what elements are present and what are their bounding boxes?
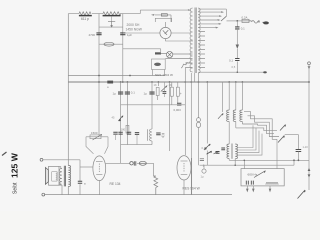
box tone filter: [241, 169, 284, 186]
heater line x185.3: [184, 68, 186, 156]
svg-text:4700: 4700: [89, 33, 96, 37]
tube V3: [177, 156, 191, 180]
wire rail B y10: [140, 9, 188, 11]
capacitor 0,003 on H4: [177, 103, 181, 105]
box legs to H2: [153, 70, 165, 76]
cap to line: [297, 152, 299, 161]
wire bus H3 y82: [68, 81, 309, 83]
wire to resistor: [146, 163, 153, 176]
capacitor x223: [221, 148, 225, 150]
box pot arrow: [254, 171, 266, 178]
inline fuse on bus: [107, 81, 113, 84]
resistor R2 bar: [103, 15, 121, 17]
right edge vertical with arrows: [308, 160, 311, 190]
socket circle below rail: [203, 165, 205, 169]
pot arrow pair small: [207, 151, 212, 154]
coil2 bottom wire: [235, 122, 237, 128]
grid RC bridge: [86, 135, 108, 154]
svg-text:+: +: [180, 92, 182, 96]
heater wire y48.8: [123, 48, 161, 50]
caps row cap x129: [127, 132, 131, 134]
wire bottom bus: [45, 194, 232, 196]
transformer primary winding: [190, 8, 193, 72]
capacitor x298.4: [296, 150, 302, 152]
bracket around tube top: [155, 18, 171, 22]
arrow left on rail A end: [151, 14, 155, 16]
transformer taps left: [165, 54, 192, 68]
IF transformer B core: [231, 144, 232, 159]
capacitor 4700 on V2: [96, 33, 101, 35]
voltage selector arm: [221, 16, 226, 21]
tick right of cap: [162, 133, 165, 135]
svg-text:1K: 1K: [154, 83, 157, 87]
cap x115.5 lead: [115, 134, 117, 140]
caps row cap x137: [135, 133, 139, 135]
cluster cap bars x217: [216, 152, 220, 154]
svg-text:Seibt: Seibt: [13, 182, 19, 194]
wire rail y160.3: [229, 159, 309, 161]
wire bar to lamp: [161, 49, 167, 54]
svg-text:45: 45: [112, 116, 115, 120]
svg-text:1450 NGW: 1450 NGW: [126, 28, 143, 32]
grid cap component: [130, 161, 139, 165]
resistor rect x127.4 y125: [126, 125, 129, 133]
wire left vertical V1: [67, 14, 69, 195]
wire V5 x152: [151, 82, 153, 145]
svg-text:NES 1204 W: NES 1204 W: [155, 73, 173, 77]
transformer taps right upper: [199, 9, 227, 28]
svg-text:a: a: [107, 85, 109, 89]
svg-text:0,2A: 0,2A: [242, 15, 248, 19]
svg-text:a: a: [84, 181, 86, 185]
dial lamp: [166, 51, 172, 57]
resistor R1 bar: [79, 15, 92, 17]
caps row cap x115.5: [113, 132, 117, 134]
primary connects: [61, 169, 62, 195]
trimmer tap from R2: [108, 16, 115, 28]
svg-text:W: W: [162, 135, 165, 139]
wire y44.2: [99, 43, 123, 45]
svg-text:0,1: 0,1: [241, 27, 245, 31]
junction dot mains: [236, 20, 238, 22]
svg-text:0,1: 0,1: [202, 146, 206, 150]
right vertical x80: [79, 160, 81, 195]
capacitor 0,1 on x127.4: [125, 92, 130, 94]
grid wire to tube: [80, 166, 93, 168]
wire cap down to y72 line: [236, 49, 238, 72]
wave switch arm left: [218, 82, 224, 119]
caps row cap on x120.6: [118, 132, 122, 134]
transformer secondary winding: [198, 8, 200, 73]
IF transformer B secondary: [235, 144, 237, 159]
antenna vertical: [308, 65, 310, 82]
pot line x207.3: [206, 82, 208, 165]
svg-text:1K: 1K: [169, 83, 172, 87]
heater line x194.7: [194, 73, 196, 82]
pilot squiggle: [249, 21, 260, 24]
svg-text:611 p: 611 p: [81, 17, 89, 21]
earth terminal y72: [263, 71, 267, 73]
svg-text:125 W: 125 W: [10, 152, 20, 178]
RF coil 1: [227, 110, 230, 122]
corner 294: [293, 160, 295, 165]
heater line x191.3: [190, 73, 192, 195]
speaker terminal top: [40, 158, 43, 161]
coil1 bottom wire: [228, 122, 230, 145]
pot wiper x207: [204, 144, 211, 150]
IF transformer B primary: [227, 144, 229, 158]
wire grid line y27.1: [99, 26, 123, 28]
mains plug: [258, 21, 269, 24]
RF coil 3: [240, 110, 243, 122]
output transformer secondary loops: [68, 166, 70, 187]
vertical x191.7 tail: [191, 158, 193, 195]
wire V3 x122: [122, 14, 124, 82]
resistor vertical x171.8: [170, 82, 173, 105]
resistor R2: [103, 12, 121, 15]
plate line tube V2: [106, 162, 130, 164]
wire segment y14.9 with bar: [155, 15, 171, 22]
RF coil feed wires: [229, 82, 242, 110]
cap x137 lead: [136, 134, 138, 144]
resistor R1: [79, 12, 91, 15]
wire V6 x158.4: [157, 82, 159, 86]
fuse box: [152, 59, 166, 70]
speaker top wire: [43, 159, 80, 161]
wire V4 x127.4: [126, 82, 128, 145]
capacitor x164.4: [163, 92, 167, 94]
speaker frame: [49, 166, 60, 185]
speaker magnet: [45, 168, 48, 185]
speaker inner: [52, 172, 58, 181]
svg-text:180: 180: [121, 128, 126, 132]
capacitor second 0,1: [235, 59, 239, 61]
output transformer core: [64, 166, 65, 187]
stamp mark bottom left: [2, 152, 7, 156]
svg-text:1-10: 1-10: [303, 145, 309, 149]
wire V2 x99: [98, 14, 100, 135]
circle component on x198.5: [197, 118, 201, 122]
wire H2 y75: [68, 75, 164, 77]
fuse oval: [104, 42, 114, 46]
resistor vertical x157.6: [156, 88, 159, 101]
component x202 with label: [200, 159, 205, 168]
junction dots right rails: [234, 159, 299, 166]
mains line after switch: [227, 20, 243, 22]
output transformer primary: [59, 169, 62, 186]
pot arrow over resistor: [161, 86, 167, 92]
band switch wipers: [278, 125, 286, 143]
phono switch arrow: [298, 190, 306, 199]
resistor diagonal near transformer: [181, 62, 190, 69]
capacitor 1u on x120.6: [118, 92, 123, 94]
capacitor 1u on x152: [149, 92, 154, 94]
tap arrows: [216, 11, 225, 28]
wire H4 y104.8: [121, 104, 186, 106]
svg-text:2000 SH: 2000 SH: [127, 23, 140, 27]
svg-text:1µ: 1µ: [144, 92, 148, 96]
wire rail to box: [243, 160, 245, 168]
pot arrow over grid resistor: [93, 134, 102, 140]
svg-text:1µ: 1µ: [113, 92, 117, 96]
speaker wires to primary: [59, 166, 61, 185]
svg-text:1µF: 1µF: [127, 33, 132, 37]
wire top rail A: [68, 10, 140, 14]
RF coil 2: [233, 110, 236, 122]
switch common wire: [285, 135, 299, 150]
box ground arrows: [246, 186, 271, 192]
oval component on x198.5: [196, 122, 200, 127]
fuse F2: [242, 19, 249, 22]
svg-text:0,1: 0,1: [131, 90, 135, 94]
bar component on segment: [161, 14, 167, 16]
svg-text:1µ: 1µ: [201, 175, 204, 179]
wire rail y165.2: [200, 164, 295, 166]
IF B bottom leads: [229, 159, 235, 165]
AF choke coil x152: [147, 129, 152, 141]
svg-text:0,5: 0,5: [232, 65, 236, 69]
oval component x142.5: [139, 161, 146, 165]
voltage selector corner: [225, 9, 227, 16]
arrow right on rail B: [188, 9, 192, 11]
junction dots bus: [98, 75, 310, 83]
capacitor 0,1 to ground: [236, 21, 238, 27]
heater bar component: [155, 52, 161, 54]
transformer taps right lower: [199, 32, 264, 73]
antenna symbol: [308, 62, 311, 69]
resistor zigzag x155.8: [154, 176, 158, 195]
box caps: [246, 181, 253, 185]
capacitor on V3: [120, 33, 125, 35]
tube V3 cathode lead: [183, 180, 185, 195]
svg-text:0,1: 0,1: [229, 59, 233, 63]
wire V8 x169.5: [169, 82, 171, 151]
IF B taps right: [237, 125, 262, 155]
box coil: [266, 183, 278, 185]
heater line x198.5: [198, 73, 200, 165]
coil3 bottom wire: [241, 122, 243, 125]
svg-text:RE 134: RE 134: [110, 182, 121, 186]
caps row cap x158.4: [156, 133, 160, 135]
svg-text:1500: 1500: [91, 131, 98, 135]
tube V2: [93, 156, 106, 195]
wire mesh to box: [276, 139, 278, 168]
ground arrow: [236, 45, 239, 49]
antenna vertical lower: [308, 82, 310, 160]
fuse oval inside box: [154, 63, 161, 66]
cluster pot arrows: [207, 151, 219, 154]
band wiring fan: [236, 112, 279, 140]
svg-text:0,003: 0,003: [174, 108, 182, 112]
wire H y144.6: [121, 144, 152, 146]
tone cap on x80: [78, 181, 82, 183]
resistor vertical x177.8: [176, 82, 179, 103]
speaker terminal bottom: [42, 193, 45, 196]
transformer core: [195, 8, 196, 74]
wire V3b x120.6 bus down: [120, 82, 122, 163]
grid leak pot on x120.6: [118, 116, 123, 122]
tube U1 rectifier: [123, 22, 193, 41]
